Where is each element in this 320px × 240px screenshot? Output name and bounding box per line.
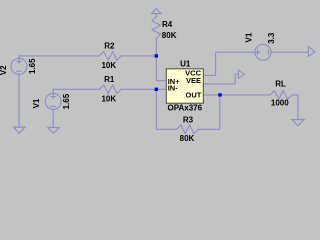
svg-text:RL: RL: [275, 79, 286, 88]
wire R1 to IN-: [121, 88, 166, 90]
svg-text:10K: 10K: [101, 61, 116, 70]
wire V1b right to arrow: [271, 51, 308, 53]
V1 plus mark: [51, 94, 55, 98]
V1 minus mark: [51, 105, 55, 107]
svg-text:3.3: 3.3: [267, 32, 276, 44]
wire R3 to OUT node: [198, 95, 219, 129]
wire R4 top stub: [155, 14, 157, 17]
svg-text:V1: V1: [244, 32, 253, 42]
wire V2 top stub: [18, 56, 20, 59]
V1b plus mark: [255, 50, 259, 54]
wire RL to ground corner: [292, 95, 298, 120]
wire node A down to IN+: [156, 56, 166, 81]
svg-text:R3: R3: [183, 115, 194, 124]
svg-text:V2: V2: [0, 65, 8, 75]
resistor R4 zigzag: [152, 17, 161, 39]
svg-text:V1: V1: [32, 98, 41, 108]
wire VEE pin to arrow: [203, 74, 238, 84]
wire VCC pin to riser: [203, 52, 255, 75]
jumper arrow right (V1b): [308, 47, 315, 57]
ground RL: [292, 120, 304, 126]
source V1b circle: [255, 44, 271, 60]
resistor R1 zigzag: [99, 85, 121, 94]
jumper arrow up (R4 top): [151, 9, 161, 14]
wire V1 to R1: [53, 88, 99, 90]
svg-text:80K: 80K: [162, 31, 177, 40]
jumper arrow right (VEE): [238, 70, 244, 78]
junction node B: [155, 88, 158, 91]
svg-text:U1: U1: [180, 60, 191, 69]
ground V2: [14, 127, 25, 133]
source V2 circle: [11, 58, 27, 74]
svg-text:R4: R4: [162, 20, 173, 29]
svg-text:80K: 80K: [180, 134, 195, 143]
svg-text:R2: R2: [104, 42, 115, 51]
svg-text:R1: R1: [104, 75, 115, 84]
resistor RL zigzag: [270, 91, 292, 100]
wire R2 to node A: [121, 55, 156, 57]
wire V2 to R2: [19, 55, 99, 57]
wire V1 top stub: [52, 89, 54, 93]
V2 minus mark: [17, 70, 21, 72]
resistor R3 zigzag: [176, 125, 198, 134]
wire V2 bottom to ground: [18, 74, 20, 127]
svg-text:OPAx376: OPAx376: [168, 104, 203, 113]
ground V1: [48, 127, 59, 133]
source V1 circle: [45, 93, 61, 109]
op-amp U1 box: [166, 69, 203, 103]
svg-text:OUT: OUT: [186, 90, 202, 99]
svg-text:IN-: IN-: [168, 84, 179, 93]
wire OUT row: [203, 94, 270, 96]
svg-text:1000: 1000: [271, 98, 289, 107]
wire node B down to R3: [156, 89, 176, 129]
svg-text:1.65: 1.65: [62, 93, 71, 109]
V2 plus mark: [17, 59, 21, 63]
wire V1 bottom to ground: [52, 109, 54, 127]
svg-text:10K: 10K: [101, 95, 116, 104]
svg-text:1.65: 1.65: [28, 58, 37, 74]
svg-text:VEE: VEE: [186, 76, 201, 85]
wire node A up to R4: [155, 39, 157, 56]
junction node OUT: [218, 93, 221, 96]
resistor R2 zigzag: [99, 52, 121, 61]
V1b minus mark: [267, 50, 269, 54]
junction node A: [155, 54, 158, 57]
